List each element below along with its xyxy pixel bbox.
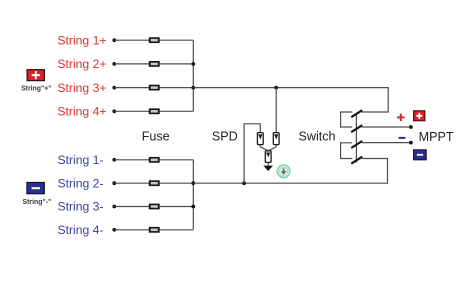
fuse F4 (String 4+) (149, 108, 160, 114)
node String 1+ terminal dot (112, 38, 116, 42)
node plus bus junction row3 (191, 86, 195, 90)
switch bracket poles 1-2 (left link) (341, 112, 353, 127)
node minus bus junction row2 (191, 181, 195, 185)
node minus bus junction row3 (191, 205, 195, 209)
switch pole 4 blade (351, 157, 362, 164)
node String 2+ terminal dot (112, 62, 116, 66)
node MPPT plus terminal dot (409, 125, 413, 129)
svg-text:SPD: SPD (212, 129, 238, 143)
label minus sign at MPPT (399, 137, 406, 139)
switch gang link vertical (355, 114, 357, 163)
svg-text:String 1-: String 1- (57, 153, 103, 167)
switch bracket poles 3-4 (left link) (341, 143, 353, 159)
fuse F3 (String 3+) (149, 85, 160, 91)
switch pole 3 blade (351, 141, 362, 148)
svg-text:String 2-: String 2- (57, 176, 103, 190)
switch pole 1 blade (351, 110, 362, 117)
svg-text:String 3+: String 3+ (57, 81, 106, 95)
svg-text:String"-": String"-" (23, 199, 52, 206)
wire switch pole 2 to MPPT plus terminal (362, 126, 411, 128)
ground PE indicator (green circled arrow) (277, 165, 289, 177)
wire fuse F7 to minus bus (160, 206, 194, 208)
node plus bus junction row2 (191, 62, 195, 66)
wire switch pole 3 to MPPT minus terminal (362, 142, 411, 144)
label plus sign at MPPT (397, 114, 404, 121)
ground (earth arrow) (263, 166, 273, 171)
symbol MPPT plus polarity box (414, 111, 425, 121)
node String 3+ terminal dot (112, 86, 116, 90)
symbol MPPT minus polarity box (414, 150, 427, 160)
node minus feed / SPD branch junction (242, 181, 246, 185)
node String 1- terminal dot (112, 158, 116, 162)
wire fuse F2 to plus bus (160, 63, 194, 65)
fuse F1 (String 1+) (149, 37, 160, 43)
switch pole 2 blade (351, 125, 362, 132)
node String 4+ terminal dot (112, 109, 116, 113)
wire String 4+ to fuse (114, 110, 149, 112)
SPD varistor element center (to earth) (265, 151, 271, 163)
wire SPD center element to ground (267, 162, 269, 165)
node String 4- terminal dot (112, 228, 116, 232)
fuse F5 (String 1-) (149, 157, 160, 163)
wire String 1+ to fuse (114, 39, 149, 41)
node String 2- terminal dot (112, 181, 116, 185)
wire String 2+ to fuse (114, 63, 149, 65)
svg-text:String 4-: String 4- (57, 223, 103, 237)
node plus feed / SPD riser junction (274, 86, 278, 90)
fuse F7 (String 3-) (149, 204, 160, 210)
svg-text:String 1+: String 1+ (57, 33, 106, 47)
SPD varistor element left (minus side) (257, 133, 263, 145)
fuse F8 (String 4-) (149, 227, 160, 233)
wire SPD right element to common point (268, 145, 276, 151)
wire String 3- to fuse (114, 206, 149, 208)
wire String 1- to fuse (114, 159, 149, 161)
wire minus bus vertical (192, 160, 194, 230)
wire String 2- to fuse (114, 182, 149, 184)
svg-text:MPPT: MPPT (419, 130, 454, 144)
wire plus feed: bus to switch pole 1 (193, 88, 388, 112)
wire fuse F1 to plus bus (160, 39, 194, 41)
wire fuse F6 to minus bus (160, 182, 194, 184)
fuse F2 (String 2+) (149, 61, 160, 67)
node String 3- terminal dot (112, 205, 116, 209)
svg-text:Fuse: Fuse (142, 129, 170, 143)
wire String 3+ to fuse (114, 87, 149, 89)
svg-text:String"+": String"+" (21, 86, 51, 93)
wire minus feed: bus to switch pole 4 (193, 159, 387, 184)
svg-text:String 3-: String 3- (57, 200, 103, 214)
fuse F6 (String 2-) (149, 180, 160, 186)
wire SPD minus branch (L shape) (244, 124, 260, 183)
wire fuse F5 to minus bus (160, 159, 194, 161)
wire SPD left element to common point (260, 145, 268, 151)
svg-text:String 4+: String 4+ (57, 105, 106, 119)
node MPPT minus terminal dot (409, 141, 413, 145)
wire plus bus vertical (192, 40, 194, 111)
wire String 4- to fuse (114, 229, 149, 231)
wire fuse F3 to plus bus (160, 87, 194, 89)
wire SPD plus riser (275, 88, 277, 133)
SPD varistor element right (plus side) (273, 133, 279, 145)
wire fuse F8 to minus bus (160, 229, 194, 231)
symbol String minus legend box (27, 183, 44, 194)
symbol String plus legend box (27, 70, 44, 81)
svg-text:String 2+: String 2+ (57, 57, 106, 71)
svg-text:Switch: Switch (298, 129, 335, 143)
wire fuse F4 to plus bus (160, 110, 194, 112)
